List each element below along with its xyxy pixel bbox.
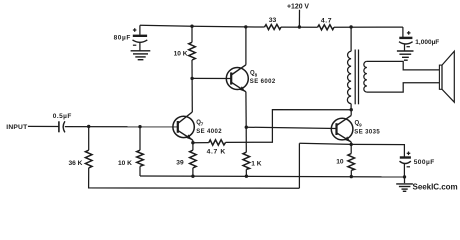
node primary-collector-feedback junction <box>350 108 353 111</box>
capacitor C-in 0.5uF left plate <box>58 121 60 132</box>
capacitor C-in 0.5uF right curved plate <box>63 121 65 132</box>
node Q8 collector rail junction <box>244 25 247 28</box>
wire Q9 collector vertical <box>350 110 352 116</box>
transistor Q9 emitter diagonal <box>337 133 352 142</box>
capacitor C 1000uF top plate <box>399 37 412 39</box>
wire Q8 collector to top rail <box>245 27 247 65</box>
wire transformer primary bottom lead <box>350 104 352 110</box>
wire 39 top lead <box>192 143 194 151</box>
speaker cone <box>442 51 454 102</box>
wire ground bus rail1 <box>140 175 405 178</box>
svg-text:10 K: 10 K <box>118 160 132 167</box>
wire secondary top lead to speaker <box>367 61 440 70</box>
transistor Q9 emitter arrow <box>345 136 351 142</box>
svg-text:39: 39 <box>176 159 184 166</box>
node Q9 base takeoff <box>245 126 248 129</box>
transistor Q7 circle <box>173 116 194 137</box>
svg-text:9: 9 <box>359 122 362 127</box>
resistor R 10 <box>348 154 355 171</box>
transformer core lines <box>354 50 356 105</box>
inductor transformer secondary winding <box>364 61 367 92</box>
svg-text:SeekIC.com: SeekIC.com <box>413 182 458 191</box>
node 10K top rail junction <box>190 25 193 28</box>
wire 80uF to ground <box>139 42 141 50</box>
capacitor C 80uF curved plate <box>133 40 148 42</box>
node Q7 emitter junction <box>191 141 194 144</box>
wire input line to Q7 base <box>65 126 178 128</box>
transistor Q8 collector diagonal <box>231 65 246 75</box>
wire rail1 drop to ground <box>404 177 406 183</box>
node 1K-rail1 junction <box>245 175 248 178</box>
svg-text:4.7: 4.7 <box>321 17 332 24</box>
wire Q9 base line <box>246 127 336 128</box>
capacitor C 1000uF lead from rail <box>402 27 404 37</box>
wire 10 ohm bottom lead <box>350 170 352 176</box>
svg-text:1 K: 1 K <box>251 160 261 167</box>
svg-text:INPUT: INPUT <box>6 124 28 131</box>
node input-36K junction <box>87 125 90 128</box>
wire input line left of coupling cap <box>28 125 59 127</box>
wire 36K bottom lead + lower return rail to output node riser <box>89 168 300 188</box>
wire feedback path to output node <box>226 110 352 143</box>
svg-text:+120 V: +120 V <box>287 4 309 11</box>
transistor Q8 base bar <box>230 72 232 84</box>
svg-text:4.7 K: 4.7 K <box>207 149 226 156</box>
svg-text:1,000µF: 1,000µF <box>415 39 439 46</box>
capacitor C 500uF plus sign <box>407 152 411 154</box>
resistor R 39 <box>190 150 197 168</box>
transistor Q9 circle <box>331 118 353 140</box>
wire 10 ohm top lead <box>350 144 352 153</box>
transistor Q8 emitter arrow <box>239 86 245 92</box>
wire 10K bias bottom lead <box>139 166 141 176</box>
svg-text:10 K: 10 K <box>174 50 188 57</box>
svg-text:7: 7 <box>201 122 204 127</box>
transistor Q7 emitter diagonal <box>178 130 193 140</box>
transistor Q9 collector diagonal <box>337 115 352 125</box>
wire output node riser down to lower rail <box>298 143 300 188</box>
wire Q7 emitter to node <box>192 140 194 143</box>
svg-text:33: 33 <box>269 17 277 24</box>
wire Q9 emitter vertical <box>350 142 352 144</box>
capacitor C 80uF plus sign <box>133 29 137 31</box>
wire 4.7K left lead from Q7 emitter <box>193 142 209 144</box>
top rail segment B+ left <box>140 25 265 27</box>
wire Q8 base <box>192 77 231 79</box>
wire 10K bottom to Q8 base node and Q7 collector <box>191 60 193 112</box>
resistor R 10K bias <box>137 150 144 166</box>
resistor R 1K <box>243 152 250 169</box>
svg-text:36 K: 36 K <box>69 160 83 167</box>
transistor Q7 collector diagonal <box>178 112 193 123</box>
capacitor C 80uF top plate <box>133 35 147 37</box>
capacitor C 80uF lead from rail <box>139 25 141 35</box>
capacitor C 1000uF minus sign <box>407 46 410 48</box>
speaker voice coil bar <box>439 65 442 89</box>
node +120V junction <box>298 25 301 28</box>
resistor R 4.7 <box>318 25 334 30</box>
wire Q8 emitter to 1K <box>245 127 247 152</box>
node 500uF rail1 junction <box>403 175 406 178</box>
wire +120V drop <box>298 10 300 27</box>
resistor R 10K collector load <box>189 42 196 60</box>
resistor R 33 <box>265 24 281 29</box>
capacitor C 1000uF curved plate <box>399 42 413 44</box>
node input-10K junction <box>138 125 141 128</box>
wire output node left segment to riser <box>299 143 351 144</box>
node 39-rail1 junction <box>191 175 194 178</box>
transistor Q8 emitter diagonal <box>231 82 246 92</box>
ground symbol 80uF <box>131 51 151 60</box>
transistor Q7 emitter arrow <box>186 134 192 140</box>
svg-text:500µF: 500µF <box>414 159 435 166</box>
wire 1K bottom lead <box>245 169 247 176</box>
wire 39 bottom lead <box>192 168 194 176</box>
svg-text:0.5µF: 0.5µF <box>53 113 72 120</box>
ground symbol bottom right <box>396 184 413 191</box>
capacitor C 80uF minus sign <box>133 44 136 46</box>
wire secondary bottom lead to speaker <box>367 83 440 92</box>
wire transformer primary top lead <box>350 27 352 51</box>
svg-text:80µF: 80µF <box>114 35 131 42</box>
capacitor C 500uF minus sign <box>407 166 410 168</box>
wire output node to 500uF <box>351 144 404 156</box>
resistor R 4.7K feedback <box>209 140 226 146</box>
svg-text:10: 10 <box>336 158 344 165</box>
node Q9 emitter junction <box>350 143 353 146</box>
inductor transformer primary winding <box>347 51 351 103</box>
transistor Q8 circle <box>226 68 248 90</box>
top rail segment right <box>334 26 403 28</box>
wire 10K collector-load top lead <box>191 26 193 42</box>
svg-text:8: 8 <box>255 72 258 77</box>
svg-text:SE 4002: SE 4002 <box>196 129 222 135</box>
capacitor C 500uF top plate <box>400 156 411 158</box>
node 10-rail1 junction <box>350 175 353 178</box>
wire 10K bias top lead <box>139 127 141 151</box>
capacitor C 500uF curved plate <box>400 161 411 163</box>
transistor Q7 base bar <box>177 121 179 133</box>
transistor Q9 base bar <box>335 123 337 135</box>
wire 1000uF to ground <box>404 44 406 50</box>
node Q8 base junction <box>190 77 193 80</box>
svg-text:SE 6002: SE 6002 <box>250 79 276 85</box>
top rail segment middle <box>281 26 318 28</box>
wire Q8 emitter down chain <box>245 92 247 127</box>
wire 36K top lead <box>88 127 90 151</box>
node transformer primary rail junction <box>349 25 352 28</box>
resistor R 36K <box>85 150 92 168</box>
svg-text:SE 3035: SE 3035 <box>354 129 380 135</box>
wire 500uF bottom lead <box>403 164 405 177</box>
ground symbol 1000uF <box>397 51 414 60</box>
capacitor C 1000uF plus sign <box>407 32 411 34</box>
